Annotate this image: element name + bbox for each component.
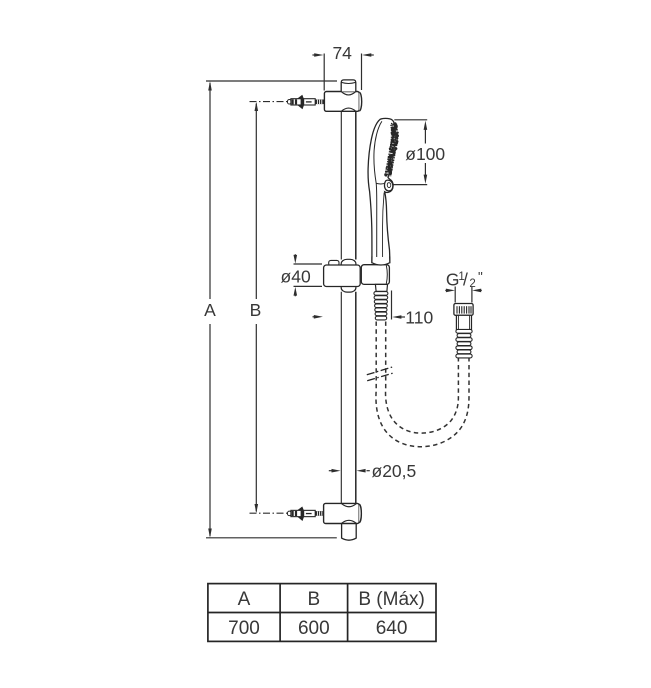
bottom wall bracket right end cap [359,504,361,523]
dimension A bottom extension line [206,537,337,539]
svg-text:A: A [238,589,251,610]
bottom wall bracket body [324,503,360,523]
dimension B bottom centerline dash-dot [250,512,290,514]
dimension o100 vertical line with arrows [424,121,428,184]
svg-text:ø100: ø100 [405,144,445,164]
anchor body slits [292,99,294,104]
hanging ring [384,180,392,191]
rail tube lower segment [341,292,356,504]
dimension A top extension line [206,80,337,82]
svg-text:A: A [204,300,216,320]
spray face speckled band [388,124,395,176]
G1/2 connector ribbed hose end [456,330,472,358]
screw threaded end [315,100,324,105]
wall anchor and screw (top) [288,95,325,110]
label G 1/2 inch [446,270,483,290]
anchor body [291,99,315,105]
svg-text:/: / [463,270,468,290]
rail tube upper segment [341,111,356,259]
data table grid [208,584,436,642]
svg-text:B (Máx): B (Máx) [358,589,425,610]
top wall bracket right end cap [359,92,361,111]
dimension A vertical line [208,81,212,538]
G1/2 connector knurled nut [454,304,473,316]
dimension o100 extension lines [394,119,427,121]
dimension o40 extension lines [294,263,323,265]
slider left block [324,265,361,287]
dimension 110 left arrow [313,315,323,319]
dimension G1/2 extension lines [454,287,456,303]
rail top end cap above bracket [341,80,356,92]
slider lock tab [329,260,339,265]
wall anchor and screw (bottom) [288,506,325,521]
dimension 110 right arrow [392,315,405,319]
svg-text:ø40: ø40 [281,267,311,287]
handle base in front of right block [372,257,390,265]
dimension 74 arrows [312,53,373,57]
anchor expansion fin bottom [297,105,304,109]
dimension B top centerline dash-dot [250,101,290,103]
dimension 110 extension line [391,291,393,320]
dimension B vertical line [255,102,259,513]
intersection curve end piece / bracket bottom [342,520,357,523]
svg-text:2: 2 [469,278,475,290]
dimension G1/2 arrows [445,289,482,293]
handle inner right line [382,193,384,263]
svg-text:600: 600 [298,618,330,639]
intersection curve rail cap / bracket top [341,92,355,95]
rail bottom end piece [342,524,357,541]
top wall bracket body [324,92,359,112]
hose connector ribbed cone [374,292,388,320]
svg-text:": " [478,270,483,285]
head handle joint line [376,182,385,185]
handle bottom ellipse [372,263,390,265]
handshower silhouette (head + handle + ring) [368,118,395,262]
slider collar around rail [341,259,356,292]
dimension o20,5 arrows [329,469,370,473]
svg-text:B: B [250,300,262,320]
svg-text:ø20,5: ø20,5 [372,461,417,481]
svg-text:110: 110 [405,307,433,327]
dimension 74 extension lines [323,54,325,91]
shower hose inner dashed curve [386,322,459,434]
intersection curve rail / bracket top (bottom bracket) [342,504,357,507]
head inner rim line [374,121,382,262]
anchor expansion fin top [297,95,304,99]
shower hose outer dashed curve [376,322,469,447]
hose break mark (two dash-dot slants) [367,367,394,375]
anchor nose [288,100,292,105]
svg-text:74: 74 [332,43,352,63]
G1/2 connector cylinder [456,315,471,329]
svg-text:B: B [307,589,320,610]
intersection curve rail / bracket bottom [342,108,356,111]
svg-text:640: 640 [376,618,408,639]
slider right block cap line [386,265,387,283]
svg-text:700: 700 [228,618,260,639]
dimension o40 arrows [294,254,298,296]
hose connector neck under slider [375,284,387,291]
slider right block [361,265,389,285]
